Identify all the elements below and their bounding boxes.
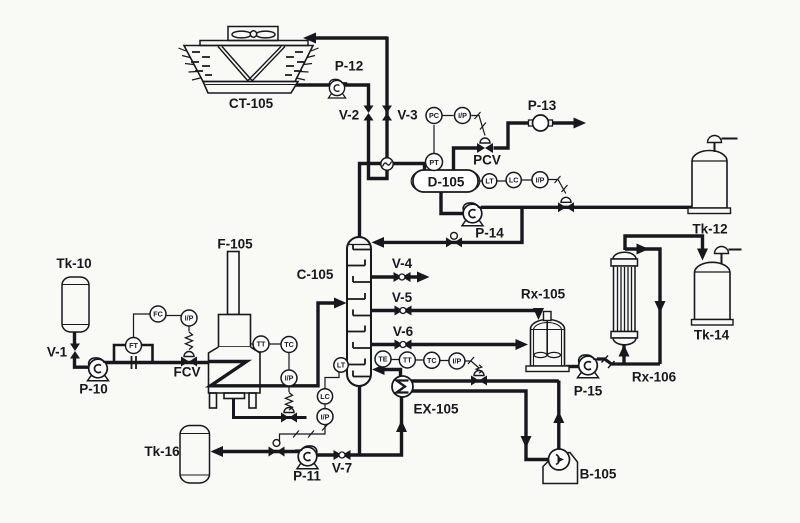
svg-text:Rx-105: Rx-105 [521, 287, 566, 302]
svg-text:P-11: P-11 [293, 469, 321, 484]
svg-text:I/P: I/P [458, 111, 467, 120]
svg-text:V-1: V-1 [47, 345, 68, 360]
svg-text:I/P: I/P [321, 412, 330, 421]
svg-text:FC: FC [153, 310, 163, 319]
svg-text:F-105: F-105 [217, 237, 253, 252]
svg-text:P-12: P-12 [335, 59, 364, 74]
svg-text:PT: PT [429, 158, 439, 167]
svg-text:FT: FT [129, 341, 138, 350]
svg-text:TC: TC [284, 340, 294, 349]
svg-text:PCV: PCV [473, 153, 501, 168]
svg-text:Tk-16: Tk-16 [144, 444, 180, 459]
svg-text:LT: LT [337, 361, 346, 370]
svg-text:V-5: V-5 [392, 290, 413, 305]
svg-text:V-2: V-2 [339, 108, 359, 123]
svg-text:P-10: P-10 [79, 382, 108, 397]
svg-text:V-4: V-4 [392, 256, 413, 271]
svg-text:TT: TT [403, 356, 412, 365]
svg-text:Rx-106: Rx-106 [632, 370, 677, 385]
svg-text:P-15: P-15 [574, 384, 603, 399]
svg-text:V-6: V-6 [393, 324, 414, 339]
svg-text:TT: TT [257, 340, 266, 349]
svg-text:LT: LT [485, 177, 494, 186]
svg-text:FCV: FCV [174, 365, 201, 380]
svg-text:C-105: C-105 [297, 267, 334, 282]
svg-text:TE: TE [378, 355, 387, 364]
svg-text:LC: LC [509, 176, 519, 185]
svg-text:CT-105: CT-105 [229, 96, 274, 111]
svg-text:I/P: I/P [453, 357, 462, 366]
svg-text:I/P: I/P [185, 314, 194, 323]
svg-text:V-3: V-3 [397, 108, 418, 123]
svg-text:D-105: D-105 [428, 175, 465, 190]
svg-text:Tk-10: Tk-10 [56, 256, 91, 271]
svg-text:PC: PC [429, 111, 439, 120]
svg-text:I/P: I/P [536, 175, 545, 184]
svg-text:V-7: V-7 [332, 461, 352, 476]
svg-text:P-13: P-13 [528, 98, 557, 113]
svg-text:EX-105: EX-105 [413, 402, 459, 417]
svg-text:Tk-12: Tk-12 [692, 222, 727, 237]
svg-text:LC: LC [320, 392, 330, 401]
svg-text:TC: TC [427, 356, 437, 365]
svg-text:B-105: B-105 [580, 467, 617, 482]
svg-text:P-14: P-14 [475, 226, 504, 241]
svg-text:I/P: I/P [285, 374, 294, 383]
svg-text:Tk-14: Tk-14 [694, 328, 730, 343]
